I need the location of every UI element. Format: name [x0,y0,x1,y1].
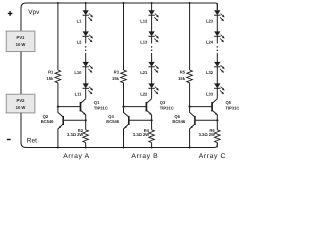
wire base wire [58,106,81,108]
node Vpv tap R3 column [123,2,125,4]
svg-text:L33: L33 [206,92,214,97]
node Vpv tap R5 column [189,2,191,4]
svg-text:L24: L24 [206,40,214,45]
wire emitter to junction [151,115,153,120]
node emitter junction array C [216,119,218,121]
node base node array A [57,106,59,108]
wire emitter to junction [85,115,87,120]
node emitter to Ret rail [189,147,191,149]
wire [57,83,59,107]
resistor R6 3.3 ohm 2W [199,120,220,147]
node emitter junction array B [151,119,153,121]
svg-text:L12: L12 [140,18,148,23]
transistor Q5 TIP31C [212,99,239,116]
svg-text:15k: 15k [112,76,120,81]
node base node array C [189,106,191,108]
svg-text:R3: R3 [114,70,120,75]
svg-text:TIP31C: TIP31C [226,105,240,110]
terminal - (negative) [7,139,11,140]
wire [216,36,218,43]
svg-text:L11: L11 [75,92,83,97]
wire emitter to junction [216,115,218,120]
node Vpv tap LED column array B [151,2,153,4]
svg-text:L23: L23 [206,18,214,23]
wire [189,83,191,107]
svg-text:L21: L21 [140,70,148,75]
svg-text:10 W: 10 W [16,42,26,47]
resistor R3 15k [112,70,126,83]
transistor Q2 BC546 [41,107,64,148]
LED L2 [77,31,93,44]
svg-text:Q6: Q6 [174,114,180,119]
svg-text:PV1: PV1 [17,35,26,40]
svg-text:10 W: 10 W [16,105,26,110]
wire [216,67,218,84]
LED L12 [140,10,159,23]
wire base wire [190,106,213,108]
svg-text:L1: L1 [77,18,83,23]
svg-text:15k: 15k [178,76,186,81]
svg-text:L32: L32 [206,70,214,75]
LED L24 [206,31,225,44]
PV panel PV2 [6,94,35,113]
svg-text:15k: 15k [46,76,54,81]
wire [151,53,153,62]
transistor Q4 BC546 [106,107,129,148]
wire [216,3,218,10]
wire between PV1 and PV2 [20,52,22,95]
svg-text:Q1: Q1 [94,100,100,105]
LED L21 [140,62,159,75]
svg-text:Q2: Q2 [43,114,49,119]
PV panel PV1 [6,31,35,51]
LED L33 [206,83,225,96]
wire small transistor base lead [63,119,85,121]
wire [151,88,153,98]
svg-text:BC546: BC546 [172,119,185,124]
transistor Q1 TIP31C [81,99,108,116]
wire [85,36,87,43]
node Vpv tap LED column array A [85,2,87,4]
svg-text:PV2: PV2 [17,98,26,103]
node R4 to Ret rail [151,147,153,149]
LED L11 [75,83,93,96]
wire [216,88,218,98]
wire PV column upper [20,8,22,31]
svg-text:R5: R5 [180,70,186,75]
LED L1 [77,10,93,23]
svg-text:BC546: BC546 [41,119,54,124]
wire base wire [124,106,147,108]
svg-text:3.3Ω 2W: 3.3Ω 2W [67,132,83,137]
svg-text:TIP31C: TIP31C [94,105,108,110]
node R2 to Ret rail [85,147,87,149]
wire [85,53,87,62]
svg-text:Ret: Ret [27,138,37,145]
ellipsis continuation dots [85,46,87,51]
svg-text:R1: R1 [48,70,54,75]
svg-text:L10: L10 [74,70,82,75]
wire small transistor base lead [129,119,152,121]
wire [85,15,87,31]
wire [123,83,125,107]
LED L10 [74,62,93,75]
svg-text:Q3: Q3 [160,100,166,105]
svg-text:3.3Ω 2W: 3.3Ω 2W [133,132,149,137]
wire Vpv top rail [21,3,217,10]
svg-text:Array A: Array A [63,153,90,160]
node base node array B [122,106,124,108]
node emitter to Ret rail [57,147,59,149]
transistor Q3 TIP31C [146,99,173,116]
wire [216,53,218,62]
resistor R2 3.3 ohm 2W [67,120,88,147]
resistor R1 15k [46,70,60,83]
wire [216,15,218,31]
svg-text:L2: L2 [77,40,83,45]
svg-text:Vpv: Vpv [28,9,40,16]
svg-text:BC546: BC546 [106,119,119,124]
svg-text:Array C: Array C [199,153,226,160]
wire [151,15,153,31]
svg-text:Q5: Q5 [226,100,232,105]
LED L13 [140,31,159,44]
LED L32 [206,62,225,75]
LED L23 [206,10,225,23]
svg-text:L13: L13 [140,40,148,45]
resistor R4 3.3 ohm 2W [133,120,154,147]
LED L22 [140,83,159,96]
svg-text:TIP31C: TIP31C [160,105,174,110]
ellipsis continuation dots [151,46,153,51]
wire [85,3,87,10]
resistor R5 15k [178,70,192,83]
wire [189,3,191,70]
wire Ret bottom rail [21,143,217,148]
wire [85,88,87,98]
svg-text:L22: L22 [140,92,148,97]
terminal + (positive) [8,11,13,16]
wire small transistor base lead [195,119,217,121]
node Vpv tap R1 column [57,2,59,4]
node emitter junction array A [85,119,87,121]
node emitter to Ret rail [123,147,125,149]
wire [85,67,87,84]
svg-text:3.3Ω 2W: 3.3Ω 2W [199,132,215,137]
wire [151,3,153,10]
wire PV column lower [20,113,22,143]
wire [123,3,125,70]
wire [151,36,153,43]
ellipsis continuation dots [217,46,219,51]
svg-text:Array B: Array B [131,153,158,160]
svg-text:Q4: Q4 [108,114,114,119]
wire [57,3,59,70]
transistor Q6 BC546 [172,107,195,148]
wire [151,67,153,84]
